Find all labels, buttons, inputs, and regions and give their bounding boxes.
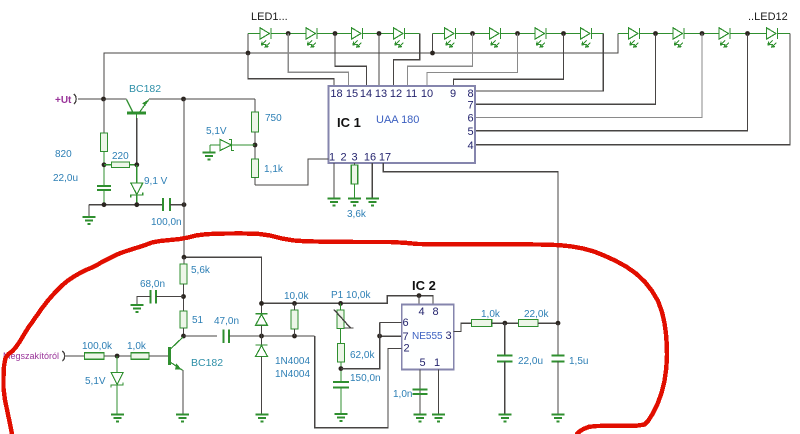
node gndline 22u bbox=[102, 202, 107, 207]
input arc +Ut bbox=[74, 94, 76, 104]
resistor R 51 bbox=[180, 311, 187, 328]
wire 22,0u to gnd line bbox=[103, 190, 105, 205]
LED D3 bbox=[335, 28, 379, 47]
wire 68,0n right lead bbox=[156, 296, 184, 298]
node 5,6k top bbox=[182, 255, 187, 260]
svg-text:1,0k: 1,0k bbox=[481, 309, 501, 320]
node rowB d1 bbox=[259, 334, 264, 339]
svg-text:5: 5 bbox=[467, 126, 473, 138]
ground 1N4004 bbox=[256, 415, 269, 422]
ground IC1 pin1 bbox=[328, 199, 341, 206]
wire branch vertical to 5,6k bbox=[183, 205, 185, 258]
capacitor C 1,5u lead bbox=[557, 323, 559, 355]
node rowA d1 bbox=[259, 301, 264, 306]
ground Q2 emitter bbox=[176, 415, 189, 422]
node rowB 555 pins67 bbox=[377, 334, 382, 339]
diode D 1N4004 lower bbox=[256, 345, 268, 357]
svg-text:2: 2 bbox=[403, 343, 409, 355]
wire IC1 pin16 to ground bbox=[371, 163, 373, 198]
ground IC2 pin1 bbox=[432, 415, 445, 422]
wire zener to ground bbox=[116, 385, 118, 414]
wire 555 pin4 stub bbox=[418, 296, 420, 305]
node LED junction x=288.2 bbox=[286, 31, 291, 36]
wire IC1 pin3 to 3,6k bbox=[354, 163, 356, 165]
capacitor C 150,0n bbox=[333, 382, 349, 387]
svg-text:5,1V: 5,1V bbox=[85, 376, 106, 387]
wire gnd stub left bbox=[88, 205, 90, 217]
transistor Q2 BC182 bbox=[163, 337, 183, 371]
capacitor C 22,0u out bbox=[497, 356, 513, 362]
svg-text:1: 1 bbox=[434, 357, 440, 369]
LED D9 bbox=[618, 28, 656, 47]
resistor R 5,6k bbox=[180, 264, 187, 284]
resistor R 62,0k bbox=[337, 344, 344, 362]
zener D 5,1V bottom bbox=[116, 356, 118, 373]
node 62k-150n node bbox=[339, 366, 344, 371]
svg-text:NE555: NE555 bbox=[412, 331, 443, 342]
LED D6 bbox=[473, 28, 518, 47]
node rowA d2 bbox=[292, 301, 297, 306]
IC1 right pin numbers 7 6 5 4 bbox=[467, 100, 473, 152]
node LED junction x=335 bbox=[333, 31, 338, 36]
node bus-LED5 anode riser bbox=[432, 34, 434, 54]
ground 3,6k bbox=[348, 199, 361, 206]
node LED junction x=563.5 bbox=[561, 31, 566, 36]
node 22u out node bbox=[503, 321, 508, 326]
svg-text:8: 8 bbox=[432, 306, 438, 318]
resistor R 750 bbox=[252, 112, 259, 132]
wire LED10/11 to IC1 pin 6 bbox=[475, 34, 702, 118]
wire +Ut rail bbox=[78, 98, 127, 100]
svg-text:10: 10 bbox=[421, 88, 433, 100]
svg-text:100,0k: 100,0k bbox=[82, 341, 113, 352]
IC1 bottom pin numbers 1 2 3 16 17 bbox=[329, 152, 391, 164]
LED D5 bbox=[433, 28, 473, 47]
node rail-bus junction bbox=[101, 97, 106, 102]
node LED junction x=517.5 bbox=[515, 31, 520, 36]
svg-text:9,1 V: 9,1 V bbox=[144, 176, 168, 187]
svg-text:13: 13 bbox=[375, 88, 387, 100]
wire node to 555 pins 6/7 column bbox=[341, 323, 380, 369]
svg-text:47,0n: 47,0n bbox=[214, 316, 239, 327]
svg-text:5: 5 bbox=[419, 357, 425, 369]
svg-text:22,0k: 22,0k bbox=[524, 309, 549, 320]
wire 3,6k to ground bbox=[354, 184, 356, 198]
transistor Q1 BC182 bbox=[127, 100, 149, 121]
LED D7 bbox=[518, 28, 564, 47]
svg-text:100,0n: 100,0n bbox=[151, 217, 182, 228]
IC1 top pin numbers 18 15 14 13 12 11 10 9 8 bbox=[330, 88, 473, 100]
wire LED1/2 to IC1 pin 15 bbox=[288, 34, 348, 87]
wire LED6/7 to IC1 pin 10 bbox=[427, 34, 518, 87]
wire ground line left bbox=[89, 204, 162, 206]
op-amp U1 IC1 UAA180 box bbox=[329, 86, 476, 163]
IC2 pin numbers bbox=[402, 306, 451, 369]
wire IC2 pin3 out bbox=[454, 323, 472, 331]
node LED junction x=472.5 bbox=[470, 31, 475, 36]
wire 1,0k to node bbox=[492, 322, 519, 324]
LED D12 bbox=[748, 28, 791, 47]
svg-text:17: 17 bbox=[379, 152, 391, 164]
svg-text:16: 16 bbox=[364, 152, 376, 164]
svg-text:8: 8 bbox=[467, 88, 473, 100]
wire P1 top lead bbox=[340, 303, 342, 310]
node 555 top bbox=[417, 293, 422, 298]
potentiometer P1 bbox=[334, 310, 354, 329]
capacitor C 47,0n bbox=[224, 329, 230, 343]
svg-text:4: 4 bbox=[418, 306, 424, 318]
svg-text:1,0n: 1,0n bbox=[393, 389, 412, 400]
svg-text:150,0n: 150,0n bbox=[350, 373, 381, 384]
capacitor C 1,0n bbox=[413, 390, 428, 395]
wire IC2 pin6 bbox=[380, 322, 402, 324]
svg-text:1,5u: 1,5u bbox=[569, 356, 588, 367]
node 820-220 node bbox=[102, 162, 107, 167]
wire 220 left lead bbox=[104, 164, 112, 166]
node input zener node bbox=[115, 354, 120, 359]
wire 150,0n to ground bbox=[340, 387, 342, 413]
LED D8 bbox=[564, 28, 604, 47]
input arc bottom bbox=[63, 351, 65, 361]
wire LED9/10 to IC1 pin 7 bbox=[475, 34, 656, 105]
svg-text:14: 14 bbox=[360, 88, 372, 100]
svg-text:2: 2 bbox=[340, 152, 346, 164]
capacitor C 68,0n bbox=[151, 290, 157, 304]
svg-text:4: 4 bbox=[467, 140, 473, 152]
resistor R 820 bbox=[101, 133, 108, 152]
node LED junction x=655.5 bbox=[653, 31, 658, 36]
wire row A bbox=[262, 296, 434, 305]
svg-text:12: 12 bbox=[390, 88, 402, 100]
svg-text:P1 10,0k: P1 10,0k bbox=[331, 290, 371, 301]
wire 62,0k to node bbox=[340, 362, 342, 382]
wire rowA left vertical segment bbox=[261, 303, 263, 313]
wire 820 to node bbox=[103, 152, 105, 187]
wire 100,0n right to branch bbox=[170, 204, 184, 206]
wire row B bbox=[229, 335, 315, 337]
resistor R 1,0k in bbox=[131, 353, 149, 360]
svg-text:820: 820 bbox=[55, 149, 72, 160]
zener D 9,1V bbox=[136, 165, 138, 183]
wire branch vertical rail to gnd line bbox=[183, 99, 185, 205]
svg-text:1,0k: 1,0k bbox=[127, 341, 147, 352]
wire LED3/4 to IC1 pin 13 bbox=[378, 34, 380, 87]
svg-text:BC182: BC182 bbox=[191, 357, 223, 369]
LED D2 bbox=[288, 28, 335, 47]
svg-text:3: 3 bbox=[445, 330, 451, 342]
svg-text:18: 18 bbox=[330, 88, 342, 100]
node 750-1,1k-zener node bbox=[253, 143, 258, 148]
wire rowB to 1N4004 lower bbox=[261, 336, 263, 345]
svg-text:IC 1: IC 1 bbox=[337, 115, 361, 130]
node LED junction x=379 bbox=[377, 31, 382, 36]
LED D11 bbox=[702, 28, 748, 47]
resistor R 1,1k bbox=[252, 159, 259, 178]
svg-text:68,0n: 68,0n bbox=[140, 279, 165, 290]
capacitor C 1,5u bbox=[552, 356, 565, 362]
svg-text:1N4004: 1N4004 bbox=[275, 356, 310, 367]
svg-text:3: 3 bbox=[351, 152, 357, 164]
svg-text:6: 6 bbox=[467, 113, 473, 125]
wire 1,5u to ground bbox=[557, 362, 559, 414]
node bus junction LED5 bbox=[430, 51, 435, 56]
svg-text:22,0u: 22,0u bbox=[518, 356, 543, 367]
wire 22,0k to 1,5u node bbox=[538, 322, 558, 324]
node 100n branch bbox=[182, 202, 187, 207]
wire IC2 pin2 loop to rowB bbox=[315, 336, 402, 428]
svg-text:5,6k: 5,6k bbox=[191, 265, 211, 276]
wire LED7/8 to IC1 pin 9 bbox=[454, 34, 564, 87]
wire LED11/12 to IC1 pin 5 bbox=[475, 34, 748, 131]
wire Q1 base down bbox=[136, 118, 138, 165]
LED D10 bbox=[656, 28, 703, 47]
svg-text:1: 1 bbox=[329, 152, 335, 164]
svg-text:BC182: BC182 bbox=[129, 83, 161, 95]
svg-text:UAA 180: UAA 180 bbox=[376, 114, 419, 126]
svg-text:22,0u: 22,0u bbox=[53, 173, 78, 184]
capacitor C 22,0u out lead bbox=[504, 323, 506, 355]
node 68n node bbox=[181, 294, 186, 299]
node gndline zener bbox=[134, 202, 139, 207]
LED D4 bbox=[379, 28, 420, 47]
wire 68,0n left elbow bbox=[137, 297, 151, 305]
wire IC1 pin1 to 1,1k node bbox=[255, 159, 329, 185]
svg-text:220: 220 bbox=[112, 151, 129, 162]
zener D 5,1V top bbox=[210, 140, 255, 151]
wire P1 to 62,0k bbox=[340, 329, 342, 344]
wire IC1 pin1-gnd stub bbox=[333, 163, 335, 198]
resistor R 22,0k bbox=[519, 320, 539, 327]
node LED junction x=747.5 bbox=[745, 31, 750, 36]
svg-text:+Ut: +Ut bbox=[55, 95, 72, 106]
resistor R 1,0k out bbox=[472, 320, 492, 327]
wire zener to gnd line bbox=[136, 195, 138, 205]
wire 5,6k to 68n node bbox=[183, 284, 185, 311]
wire LED2/3 to IC1 pin 14 bbox=[335, 34, 367, 87]
wire IC2 pin1 down bbox=[438, 370, 440, 415]
node rowA P1 bbox=[338, 301, 343, 306]
node bus junction LED1 bbox=[246, 51, 251, 56]
svg-text:1,1k: 1,1k bbox=[264, 164, 284, 175]
wire LED8 to IC1 pin 8 bbox=[475, 34, 603, 92]
wire Q2 emitter down bbox=[182, 370, 184, 414]
wire zener gnd elbow bbox=[209, 145, 211, 152]
ground left rail bbox=[83, 217, 96, 224]
svg-text:15: 15 bbox=[346, 88, 358, 100]
ground IC1 pin16 bbox=[366, 199, 379, 206]
ground 1,5u bbox=[552, 415, 565, 422]
svg-text:7: 7 bbox=[402, 331, 408, 343]
ground 5,1V top bbox=[203, 153, 216, 160]
red freehand outline bbox=[4, 233, 668, 434]
capacitor C 22,0u bbox=[97, 186, 111, 190]
resistor R 100,0k bbox=[85, 353, 104, 360]
wire 51 to collector node bbox=[183, 328, 185, 336]
svg-text:750: 750 bbox=[265, 113, 282, 124]
wire 5,6k top node to 1N4004 column bbox=[184, 257, 262, 303]
ground IC2 pin5 bbox=[414, 415, 427, 422]
node rowB d2 bbox=[292, 334, 297, 339]
wire 1,1k to pin1 route bbox=[254, 178, 256, 185]
wire collector node to 47,0n bbox=[184, 335, 218, 337]
wire 22,0u to ground bbox=[504, 362, 506, 414]
svg-text:9: 9 bbox=[450, 88, 456, 100]
wire 1N4004 lower anode to ground bbox=[261, 357, 263, 415]
node bus-LED1 anode riser bbox=[247, 34, 249, 54]
svg-text:62,0k: 62,0k bbox=[350, 350, 375, 361]
node Q2 collector node bbox=[181, 334, 186, 339]
wire 750 to node bbox=[254, 132, 256, 159]
wire LED5/6 to IC1 pin 11 bbox=[408, 34, 473, 87]
node LED junction x=702 bbox=[700, 31, 705, 36]
svg-text:3,6k: 3,6k bbox=[347, 209, 367, 220]
node 1,5u node bbox=[556, 321, 561, 326]
wire IC1 pin17 long route to bottom node bbox=[383, 163, 558, 323]
resistor R 10,0k bbox=[291, 310, 298, 329]
svg-text:51: 51 bbox=[192, 315, 204, 326]
wire 1N4004 upper anode bbox=[261, 325, 263, 336]
wire IC2 pin5 down bbox=[419, 370, 421, 415]
svg-text:5,1V: 5,1V bbox=[206, 126, 227, 137]
ground 5,1V bottom bbox=[111, 415, 124, 422]
ground 150,0n bbox=[335, 414, 348, 421]
timer U2 IC2 NE555 box bbox=[402, 305, 454, 370]
LED D1 bbox=[248, 28, 288, 47]
svg-text:11: 11 bbox=[406, 88, 417, 100]
wire input to 100,0k bbox=[65, 355, 85, 357]
wire 10,0k top lead bbox=[294, 303, 296, 310]
capacitor C 100,0n bbox=[163, 198, 170, 211]
wire 820 branch bbox=[103, 99, 105, 133]
wire +V bus top rail bbox=[104, 53, 248, 99]
svg-text:LED1...: LED1... bbox=[251, 11, 288, 23]
wire LED4 to IC1 pin 12 bbox=[394, 34, 420, 87]
wire down to 5,6k bbox=[183, 257, 185, 264]
resistor R 3,6k bbox=[351, 165, 358, 184]
wire 10,0k bottom lead bbox=[294, 329, 296, 336]
ground 68,0n bbox=[131, 305, 144, 312]
resistor R 220 bbox=[112, 162, 130, 168]
ground 22,0u out bbox=[499, 415, 512, 422]
wire bus to IC1 pin 18 bbox=[248, 53, 334, 86]
wire 220 right lead bbox=[129, 164, 136, 166]
wire LED12 to IC1 pin 4 bbox=[475, 34, 790, 145]
svg-text:10,0k: 10,0k bbox=[284, 291, 309, 302]
node 220-zener node bbox=[134, 162, 139, 167]
wire 100,0k to node bbox=[104, 355, 131, 357]
svg-text:6: 6 bbox=[402, 317, 408, 329]
svg-text:..LED12: ..LED12 bbox=[748, 11, 788, 23]
node rail 100n branch bbox=[181, 97, 186, 102]
svg-text:IC 2: IC 2 bbox=[412, 278, 436, 293]
svg-text:7: 7 bbox=[467, 100, 473, 112]
svg-text:1N4004: 1N4004 bbox=[275, 369, 310, 380]
wire 1,0k to Q2 base bbox=[149, 355, 168, 357]
diode D 1N4004 upper bbox=[256, 314, 268, 326]
wire rail corner down to 750 bbox=[254, 99, 256, 112]
